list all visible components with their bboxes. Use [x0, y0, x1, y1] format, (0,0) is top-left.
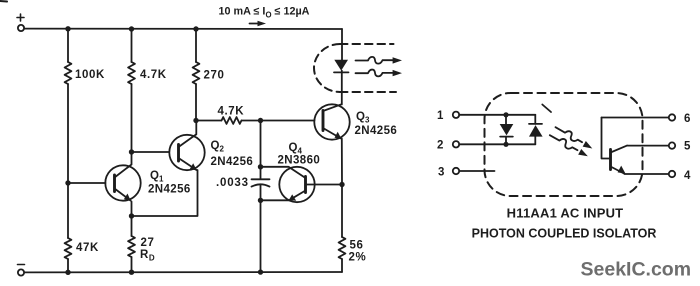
svg-text:3: 3 [438, 167, 444, 179]
svg-text:2: 2 [437, 140, 443, 152]
pin 4 lead (emitter) [625, 171, 676, 177]
internal light arrow 1 [554, 124, 594, 151]
resistor 4.7K vertical [128, 62, 135, 84]
wire vertical line x=68 [67, 29, 69, 272]
scan mark top-left corner [0, 0, 7, 3]
svg-text:2N4256: 2N4256 [355, 125, 398, 137]
svg-text:56: 56 [350, 240, 364, 252]
svg-text:.0033: .0033 [216, 177, 249, 189]
wire Q4 base to sense node [306, 184, 343, 186]
svg-text:Q2: Q2 [211, 140, 225, 154]
terminal - (negative input) [18, 265, 25, 276]
wire resistor 27 to rail [131, 216, 133, 272]
resistor 270 [193, 62, 200, 84]
svg-text:6: 6 [684, 113, 690, 125]
wire vertical line x=131.5 [131, 29, 133, 152]
resistor 27 RD [128, 236, 135, 257]
resistor 4.7K horizontal [222, 117, 242, 124]
svg-text:27: 27 [141, 237, 155, 249]
wire vertical line x=342 top [341, 29, 343, 60]
wire Q3 emitter to sense node [341, 139, 343, 185]
dashed package outline [485, 93, 643, 196]
LED D1 [334, 60, 349, 73]
resistor 100K [65, 62, 72, 84]
resistor 56 2% [339, 237, 346, 259]
svg-text:4.7K: 4.7K [140, 69, 167, 81]
svg-text:47K: 47K [76, 242, 99, 254]
wire top rail [24, 28, 342, 30]
svg-text:RD: RD [140, 249, 155, 263]
wire LED to Q3 collector [341, 72, 343, 104]
pin 1 lead [453, 112, 536, 118]
light output arrow 2 [356, 70, 403, 77]
wire vertical line x=196 [195, 29, 197, 121]
svg-text:2N3860: 2N3860 [278, 155, 321, 167]
svg-text:2N4256: 2N4256 [211, 156, 254, 168]
junction dots left circuit [65, 26, 344, 275]
svg-text:SeekIC.com: SeekIC.com [581, 259, 692, 281]
wire sense node to resistor 56 [341, 185, 343, 273]
svg-text:1: 1 [437, 110, 444, 122]
pin 3 lead (nc) [453, 168, 495, 174]
capacitor .0033 [252, 179, 270, 186]
wire Q4 emitter tap [261, 191, 306, 201]
svg-text:10 mA ≤ IO ≤ 12µA: 10 mA ≤ IO ≤ 12µA [219, 6, 310, 20]
internal light arrow 2 [548, 132, 589, 159]
dashed lens capsule around LED [314, 44, 396, 92]
transistor Q4 2N3860 (mirrored) [279, 167, 314, 202]
input diode DA (points down) [500, 115, 514, 145]
junction dots diode node [503, 112, 508, 147]
svg-text:Q1: Q1 [150, 170, 164, 184]
wire Q1 collector node to Q2 base [132, 151, 170, 153]
transistor Q1 2N4256 [105, 152, 140, 216]
svg-text:100K: 100K [75, 69, 105, 81]
phototransistor [602, 118, 628, 174]
wire vertical line x=260.5 with capacitor [260, 121, 262, 273]
svg-text:4: 4 [684, 170, 691, 182]
svg-text:4.7K: 4.7K [218, 106, 245, 118]
svg-text:Q3: Q3 [356, 111, 370, 125]
svg-text:H11AA1 AC INPUT: H11AA1 AC INPUT [507, 206, 624, 221]
svg-text:2%: 2% [349, 252, 367, 264]
pin 6 lead (base) [602, 114, 676, 120]
resistor 47K [65, 238, 72, 259]
wire Q1 base [68, 182, 106, 184]
pin 2 lead [453, 141, 536, 147]
svg-text:PHOTON COUPLED ISOLATOR: PHOTON COUPLED ISOLATOR [472, 227, 657, 241]
svg-text:270: 270 [204, 70, 225, 82]
svg-text:Q4: Q4 [289, 142, 303, 156]
internal light ray tick [542, 105, 551, 113]
light output arrow 1 [356, 57, 403, 64]
current label arrow [250, 21, 267, 27]
wire Q1 emitter to Q2 emitter [132, 170, 198, 216]
input diode DB (points up, antiparallel) [529, 115, 543, 145]
transistor Q3 2N4256 [314, 104, 349, 140]
wire Q4 collector tap [261, 167, 306, 178]
pin 5 lead (collector) [627, 142, 675, 148]
transistor Q2 2N4256 [169, 121, 204, 171]
wire node 4.7K horizontal [196, 120, 314, 122]
svg-text:5: 5 [684, 141, 691, 153]
wire bottom rail [24, 271, 342, 273]
svg-text:2N4256: 2N4256 [148, 184, 191, 196]
terminal + (positive input) [17, 14, 24, 31]
